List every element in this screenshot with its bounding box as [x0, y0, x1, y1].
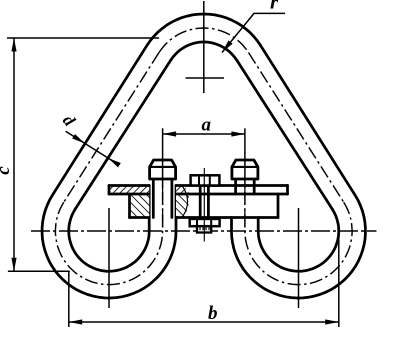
nut on left rod end: [150, 160, 176, 179]
apex centerline arc (dash-dot): [159, 28, 249, 53]
central stud shank: [200, 186, 208, 218]
dimension c line with arrows: [13, 38, 15, 271]
rod apex inner arc: [171, 42, 237, 60]
radius r leader line with arrow: [222, 13, 285, 52]
svg-text:r: r: [270, 0, 279, 14]
rod right slant outer edge: [260, 45, 355, 195]
clamp body left sectioned block (hatched): [130, 194, 150, 218]
clamp plate left sectioned part (hatched): [109, 186, 149, 195]
dimension a right extension line: [244, 128, 246, 186]
dimension b line with arrows: [69, 321, 339, 323]
clamp plate right sectioned sliver (hatched, to break line): [176, 186, 189, 195]
rod left slant inner edge: [75, 60, 171, 209]
clamp body outline: [128, 194, 131, 218]
dimension c top extension line: [7, 37, 159, 39]
right loop outer contour: [232, 195, 366, 298]
dimension a line with arrows: [163, 133, 245, 135]
left slant centerline (dash-dot): [64, 53, 159, 203]
svg-text:b: b: [208, 303, 218, 324]
right loop vertical centerline: [298, 208, 300, 308]
left rod end (threaded) through clamp: [153, 179, 172, 218]
clamp plate outline: [108, 186, 111, 195]
rod right slant inner edge: [237, 60, 333, 209]
dimension b right extension line: [338, 232, 340, 327]
right rod end centerline (dash-dot): [244, 186, 246, 231]
left rod end centerline (dash-dot): [162, 186, 164, 231]
left loop vertical centerline: [108, 208, 110, 308]
left loop centerline circle (dash-dot): [55, 186, 162, 285]
dimension a left extension line: [162, 128, 164, 186]
central stud lower nut: [190, 219, 220, 226]
loops horizontal centerline (dash-dot): [31, 230, 377, 232]
right loop eye (hole) contour: [258, 209, 339, 271]
dimension d line with arrows: [66, 131, 117, 163]
central stud upper nut: [191, 175, 220, 185]
apex vertical centerline: [203, 1, 205, 93]
right slant centerline (dash-dot): [249, 53, 344, 203]
left loop eye (hole) contour: [69, 186, 149, 272]
clamp body right sectioned wedge (hatched, to break line): [176, 194, 189, 218]
apex center horizontal tick: [186, 77, 225, 79]
nut on right rod end: [232, 160, 258, 179]
right rod end (threaded) above clamp body: [236, 179, 255, 194]
rod left slant outer edge: [52, 45, 147, 195]
rod apex outer arc: [147, 14, 260, 45]
dimension c bottom extension line: [8, 270, 70, 272]
left loop outer contour: [42, 186, 176, 299]
svg-text:a: a: [202, 115, 212, 136]
right loop centerline circle (dash-dot): [245, 186, 352, 285]
break (wavy) line of local section: [182, 186, 188, 218]
dimension b left extension line: [68, 271, 70, 327]
svg-text:c: c: [0, 166, 14, 175]
central stud threaded end with thread lines: [197, 226, 211, 232]
central stud centerline: [203, 168, 205, 242]
